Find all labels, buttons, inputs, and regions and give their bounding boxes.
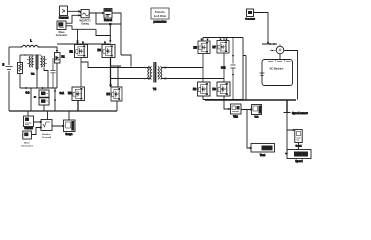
wire constant to machine (254, 13, 269, 44)
svg-text:>: > (62, 9, 66, 15)
svg-text:Transfo.: Transfo. (155, 10, 166, 14)
node dot (166, 78, 168, 80)
svg-text:Gates2: Gates2 (104, 19, 113, 22)
transformer Tr input (27, 55, 47, 70)
label Wave Generator1 (21, 143, 33, 148)
svg-text:Speed sensor: Speed sensor (292, 112, 308, 115)
wire leg1 (80, 58, 82, 88)
wire speed down (286, 113, 288, 153)
wire transformer bottom right (44, 68, 48, 88)
wire input top rail (9, 46, 22, 48)
svg-text:Tr1: Tr1 (31, 74, 35, 76)
svg-text:m: m (34, 97, 36, 99)
capacitor machine field (260, 73, 265, 76)
display voltage (251, 144, 275, 153)
wire left rail (8, 47, 10, 111)
svg-text:Speed: Speed (295, 160, 303, 163)
MOSFET M8 (217, 82, 230, 96)
dc machine circle (270, 44, 284, 54)
svg-text:Current2: Current2 (42, 136, 52, 139)
svg-text:V12: V12 (233, 116, 238, 119)
MOSFET M6 (198, 82, 211, 96)
capacitor C02 block (39, 90, 49, 111)
svg-text:Vout: Vout (260, 154, 265, 157)
svg-text:Vab: Vab (255, 117, 260, 119)
capacitor Cd1 (231, 38, 236, 100)
wire step to gating (66, 11, 80, 24)
svg-text:E: E (3, 64, 5, 67)
MOSFET M4 (111, 87, 122, 101)
resistor branch R1 (18, 55, 23, 88)
node leg2 dot (110, 84, 112, 86)
svg-text:Current: Current (24, 127, 33, 130)
node junction blob (109, 23, 112, 25)
wire M4 bottom (116, 101, 118, 111)
node dots on top rail (20, 46, 21, 47)
svg-text:T4: T4 (153, 87, 157, 91)
wire M4 gate riser (111, 66, 121, 87)
svg-text:M5: M5 (194, 47, 198, 50)
wire gating to driver (89, 12, 103, 14)
wire bridge2 leg1 (202, 54, 204, 83)
display speed (285, 150, 311, 159)
svg-text:C-2: C-2 (26, 92, 31, 95)
wire bus to V12 (224, 100, 230, 110)
MOSFET M2 (72, 87, 84, 100)
wire feedback loop (96, 13, 121, 24)
bus machine to speed (286, 100, 288, 113)
wire torque input (262, 43, 277, 44)
wire inner bottom (20, 87, 57, 89)
diode D1 (55, 53, 61, 89)
node wireB dot (144, 78, 146, 80)
wire bridge2 bottom (203, 96, 243, 100)
node speed junction (284, 112, 291, 114)
wire machine right (284, 51, 297, 100)
wire driver output down (112, 13, 121, 55)
wire top rail right (38, 47, 57, 53)
svg-text:Co1: Co1 (60, 92, 65, 95)
wire A to transformer (81, 62, 148, 68)
battery E (6, 67, 13, 70)
wire bus to current block (27, 111, 29, 116)
wire wave gen to gate bus (66, 26, 110, 42)
annotation box Transfo parameters (151, 8, 169, 19)
block gate driver (104, 9, 112, 19)
svg-text:D1: D1 (62, 56, 66, 59)
wire wavegen2 to relative (31, 127, 41, 135)
block wave gen 2 (23, 131, 32, 139)
svg-text:M3: M3 (98, 49, 102, 52)
svg-text:Generator1: Generator1 (21, 144, 33, 147)
wire T4 secondary bottom (162, 78, 225, 79)
MOSFET M5 (198, 41, 210, 53)
inductor L (22, 45, 38, 47)
svg-text:M4: M4 (107, 93, 111, 96)
dc machine body (262, 60, 293, 86)
gain block (295, 130, 302, 143)
label MOSFET1 Gating (79, 20, 91, 26)
node dot (36, 69, 38, 71)
block MOSFET gating U1 (79, 10, 89, 18)
svg-text:M7: M7 (213, 46, 217, 49)
MOSFET M7 (217, 41, 229, 53)
svg-text:Cd1: Cd1 (221, 67, 226, 70)
wire current to relative (34, 121, 42, 122)
svg-text:Gating: Gating (81, 23, 89, 26)
MOSFET M3 (102, 45, 115, 58)
label Wave Generator (56, 31, 67, 37)
MOSFET M1 (75, 45, 88, 58)
svg-text:parameters: parameters (154, 21, 168, 24)
transformer T4 (148, 62, 162, 83)
wire gain to display (298, 143, 300, 150)
wire control to T4 (121, 55, 131, 67)
voltage measure V12 (231, 104, 242, 114)
wire T4 secondary top (162, 67, 204, 68)
wire to gain (287, 129, 294, 130)
wire bridge2 right rail (242, 38, 244, 100)
capacitor C01 (51, 58, 56, 88)
svg-text:L: L (30, 39, 32, 43)
svg-text:M2: M2 (68, 92, 72, 95)
block step source (Current) (60, 6, 68, 16)
bus ground thick (9, 110, 117, 112)
wire leg2 (110, 58, 112, 88)
svg-text:Generator: Generator (56, 34, 67, 37)
node dot (166, 67, 168, 69)
wire machine loop left (243, 56, 246, 100)
measurement line Co1 (54, 88, 55, 111)
wire bus to relative block (47, 111, 49, 120)
svg-text:Wave: Wave (24, 143, 30, 145)
svg-text:Relative: Relative (42, 133, 51, 136)
svg-text:DC Machine: DC Machine (270, 68, 284, 71)
node wireA dots (144, 67, 146, 69)
block relative current (41, 120, 52, 131)
wire junction to M3 gate (109, 24, 111, 42)
wire bridge2 leg2 (223, 53, 225, 82)
block wave generator (57, 21, 66, 30)
svg-text:Current: Current (59, 16, 69, 20)
svg-text:M1: M1 (70, 51, 74, 54)
wire V12 to scope (241, 109, 252, 110)
wire circle to armature (279, 54, 281, 60)
wire rail bridge2 (201, 38, 243, 42)
wire gate bus (110, 40, 111, 42)
arrow mark on inner bottom (26, 87, 44, 88)
arrow into D1 (56, 50, 57, 52)
node dot inner top (24, 54, 26, 56)
wire M2 bottom (77, 101, 79, 112)
wire relative to scope1 (52, 125, 64, 126)
label Relative Current (42, 133, 52, 139)
constant block TL (247, 9, 254, 17)
wire bus to scope1 (68, 111, 70, 120)
bus dc thick (205, 99, 296, 101)
svg-text:1e-3 Ohm: 1e-3 Ohm (154, 14, 167, 18)
scope block 1 (64, 120, 76, 132)
node tap junction (246, 109, 248, 111)
svg-text:Constant: Constant (245, 18, 255, 21)
wire drop left of C02 (30, 88, 32, 111)
wire rail bridge1 (57, 41, 111, 44)
scope Vdc (252, 105, 262, 115)
wire tap to display (247, 110, 251, 149)
svg-text:M6: M6 (193, 88, 197, 91)
wire transformer bottom left (36, 69, 38, 89)
svg-text:Scope: Scope (66, 134, 74, 136)
wire B to transformer (111, 78, 149, 80)
block current sensor (24, 116, 34, 127)
wire inner top (20, 54, 33, 56)
node junction at 96,13 (95, 12, 96, 13)
svg-text:M8: M8 (213, 88, 217, 91)
